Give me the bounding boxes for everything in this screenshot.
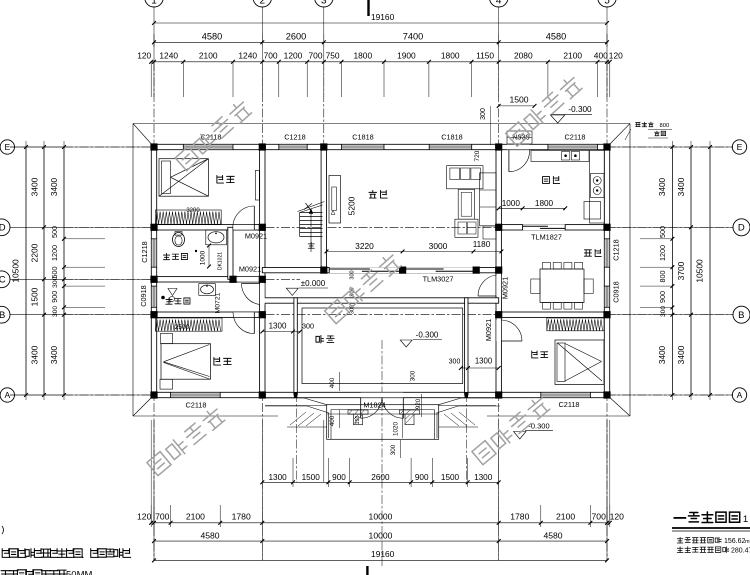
svg-text:1800: 1800 xyxy=(353,51,372,61)
coffee table xyxy=(458,189,475,219)
courtyard north wall xyxy=(262,298,498,303)
eave corner diagonal TR xyxy=(607,124,630,148)
eave corner diagonal BL xyxy=(133,395,154,416)
svg-text:1300: 1300 xyxy=(268,473,287,482)
side table xyxy=(483,226,496,239)
svg-text:400: 400 xyxy=(329,415,336,426)
svg-text:800: 800 xyxy=(660,123,670,129)
svg-text:2200: 2200 xyxy=(30,243,40,262)
bottom extension lines xyxy=(153,420,155,560)
svg-text:3400: 3400 xyxy=(676,345,686,364)
axis bubble D right xyxy=(733,219,750,236)
svg-text:1300: 1300 xyxy=(474,473,493,482)
svg-text:C1218: C1218 xyxy=(140,241,149,263)
door M0921 dining xyxy=(496,275,501,296)
svg-text:±0.000: ±0.000 xyxy=(301,279,326,288)
eave corner diagonal BR xyxy=(607,395,630,416)
stair up arrow xyxy=(310,210,312,252)
svg-text:2100: 2100 xyxy=(563,51,582,61)
svg-text:B: B xyxy=(738,310,744,321)
dim 1300 300 courtyard TL xyxy=(262,331,300,333)
axis bubble D left xyxy=(0,219,10,236)
svg-text:5200: 5200 xyxy=(347,196,357,215)
svg-text:3000: 3000 xyxy=(429,241,448,251)
bottom dim row 3 xyxy=(154,540,607,542)
left dim chain inner xyxy=(63,147,65,395)
svg-text:3400: 3400 xyxy=(658,345,667,364)
door M0921 bedroom3 xyxy=(496,320,501,341)
axis line 2 xyxy=(261,7,263,62)
svg-text:720: 720 xyxy=(474,150,481,161)
door opening wall C baths xyxy=(238,277,259,282)
svg-text:D: D xyxy=(738,223,745,234)
dining table xyxy=(540,269,584,303)
axis line B xyxy=(10,314,64,316)
note line 3 (cut) xyxy=(1,571,10,575)
svg-text:156.62: 156.62 xyxy=(724,538,746,545)
courtyard west axis xyxy=(296,300,298,482)
svg-text:M0921: M0921 xyxy=(484,319,493,341)
bath1 basin xyxy=(206,230,227,245)
watermark top-right xyxy=(505,74,582,146)
courtyard west wall xyxy=(294,298,297,395)
svg-text:1500: 1500 xyxy=(302,473,321,482)
svg-text:C1218: C1218 xyxy=(612,239,621,261)
axis line C xyxy=(10,278,64,280)
svg-text:3700: 3700 xyxy=(676,261,686,280)
porch wing wall left xyxy=(265,398,327,405)
axis line 5 xyxy=(606,7,608,62)
svg-text:A: A xyxy=(4,390,10,400)
window C2118 bedroom1 north xyxy=(183,145,233,150)
bath2 shower head xyxy=(169,296,174,301)
svg-text:2600: 2600 xyxy=(286,31,306,41)
svg-text:-0.300: -0.300 xyxy=(568,105,592,114)
tv cabinet living xyxy=(329,176,341,224)
svg-text:120: 120 xyxy=(137,512,152,522)
svg-text:3400: 3400 xyxy=(50,177,59,196)
svg-text:300: 300 xyxy=(449,359,461,366)
door M0921 bath2 xyxy=(260,284,265,305)
bath2 floor drain xyxy=(168,289,177,296)
porch eave line right xyxy=(438,405,496,407)
sheet center mark bottom xyxy=(366,566,368,575)
svg-text:C0918: C0918 xyxy=(139,285,148,307)
svg-text:E: E xyxy=(737,142,743,152)
svg-text:1500: 1500 xyxy=(509,95,528,105)
svg-text:700: 700 xyxy=(264,51,278,61)
entrance pier left xyxy=(348,410,368,414)
svg-text:C1818: C1818 xyxy=(352,133,374,142)
wardrobe bedroom1 xyxy=(156,210,222,224)
room label bath1 xyxy=(163,253,169,259)
svg-text:1300: 1300 xyxy=(269,322,287,331)
dim 3220 3000 1180 xyxy=(327,250,502,252)
bath1 drain dot xyxy=(195,250,197,252)
svg-text:700: 700 xyxy=(309,51,323,61)
svg-text:2080: 2080 xyxy=(514,51,533,61)
svg-text:1000: 1000 xyxy=(200,250,207,265)
sheet center mark top xyxy=(367,0,369,16)
svg-text:920: 920 xyxy=(415,398,422,409)
eave outline right xyxy=(629,124,631,417)
svg-text:A: A xyxy=(737,390,743,400)
svg-text:3400: 3400 xyxy=(676,177,686,196)
bath1 toilet xyxy=(173,233,185,247)
svg-text:DK1021: DK1021 xyxy=(218,252,224,270)
eave outline bottom-right xyxy=(487,415,630,417)
svg-text:-0.300: -0.300 xyxy=(416,331,439,340)
eave outline left xyxy=(132,124,134,417)
room label living xyxy=(369,190,377,198)
title area line 1 xyxy=(677,537,683,543)
axis bubble 2 xyxy=(253,0,272,7)
wall south (axis A) xyxy=(151,392,609,397)
porch wing wall right xyxy=(439,398,500,405)
svg-text:10500: 10500 xyxy=(695,259,705,283)
bath partition wall xyxy=(228,227,233,279)
sliding door opening 3220 xyxy=(329,267,402,273)
svg-text:1300: 1300 xyxy=(475,357,493,366)
door M1824 courtyard entrance xyxy=(361,393,404,398)
svg-text:C1218: C1218 xyxy=(284,133,306,142)
axis line A xyxy=(10,394,64,396)
svg-text:4580: 4580 xyxy=(200,530,219,540)
svg-text:120: 120 xyxy=(610,512,625,522)
svg-text:3220: 3220 xyxy=(355,241,374,251)
svg-text:M0921: M0921 xyxy=(245,232,267,241)
svg-text:B: B xyxy=(0,310,5,321)
svg-text:E: E xyxy=(4,142,10,152)
svg-text:500: 500 xyxy=(658,226,667,238)
kitchen door step xyxy=(507,131,532,144)
room label kitchen xyxy=(543,177,550,184)
right dim chain inner xyxy=(671,147,673,395)
wall west (axis 1) xyxy=(151,144,156,397)
svg-text:400: 400 xyxy=(594,51,608,61)
svg-text:900: 900 xyxy=(658,291,667,303)
window C0918 east xyxy=(605,286,610,307)
dim 1000 bath xyxy=(208,246,210,267)
fridge xyxy=(584,202,601,220)
svg-text:4: 4 xyxy=(496,0,502,7)
svg-text:1150: 1150 xyxy=(476,51,494,61)
svg-text:19160: 19160 xyxy=(371,549,395,559)
dim 300 1300 courtyard BR xyxy=(461,367,499,369)
svg-text:M0721: M0721 xyxy=(215,292,222,313)
bed bedroom3 xyxy=(555,340,604,385)
bottom dim row total xyxy=(154,559,607,561)
dim 1500 top right xyxy=(499,105,535,107)
svg-text:1000: 1000 xyxy=(502,199,521,208)
svg-text:1: 1 xyxy=(743,514,748,525)
wall C left wing xyxy=(154,277,262,282)
svg-text:750: 750 xyxy=(326,51,340,61)
svg-text:1800: 1800 xyxy=(441,51,460,61)
tv shelf bedroom1 xyxy=(255,171,259,201)
wall axis 3 stair xyxy=(321,147,326,273)
room label bedroom3 xyxy=(532,351,538,358)
svg-text:2100: 2100 xyxy=(186,512,205,522)
axis bubble 4 xyxy=(489,0,508,7)
window C2118 kitchen north xyxy=(548,145,598,150)
svg-text:1200: 1200 xyxy=(658,245,667,261)
sofa right chaise xyxy=(480,173,497,226)
sliding door TLM1827 xyxy=(523,224,566,230)
svg-text:400: 400 xyxy=(329,377,336,388)
svg-text:3400: 3400 xyxy=(30,177,40,196)
svg-text:700: 700 xyxy=(155,512,170,522)
svg-text:TLM1827: TLM1827 xyxy=(531,233,562,242)
svg-text:3400: 3400 xyxy=(658,177,667,196)
svg-text:1240: 1240 xyxy=(238,51,257,61)
svg-text:19160: 19160 xyxy=(371,12,395,22)
svg-text:M0921: M0921 xyxy=(501,277,510,299)
note sanshui 800 xyxy=(636,122,641,126)
room label courtyard xyxy=(316,335,324,343)
window C1218 east xyxy=(605,239,610,267)
axis line 4 xyxy=(498,7,500,62)
svg-text:C2118: C2118 xyxy=(559,400,580,409)
wardrobe bedroom3 xyxy=(547,318,604,331)
bottom dim row 2 xyxy=(151,522,610,524)
svg-text:3400: 3400 xyxy=(50,345,59,364)
svg-text:2600: 2600 xyxy=(371,473,390,482)
svg-text:300: 300 xyxy=(480,108,487,120)
left dim chain outer 10500 xyxy=(25,147,27,395)
svg-text:1200: 1200 xyxy=(284,51,303,61)
svg-text:4580: 4580 xyxy=(202,31,222,41)
svg-text:M1824: M1824 xyxy=(363,401,385,410)
watermark bottom-right xyxy=(472,395,551,465)
axis bubble B left xyxy=(0,306,10,323)
entrance axis xyxy=(381,340,383,566)
svg-text:700: 700 xyxy=(592,512,607,522)
svg-text:2100: 2100 xyxy=(199,51,218,61)
bed bedroom1 xyxy=(159,159,208,197)
svg-text:10000: 10000 xyxy=(369,530,393,540)
watermark center xyxy=(324,252,401,324)
window C1218 west xyxy=(152,239,157,267)
axis line 1 xyxy=(153,7,155,62)
wall living south xyxy=(262,268,498,273)
courtyard wall corner posts xyxy=(294,392,297,398)
door M0921 bedroom1 xyxy=(233,225,254,230)
svg-text:300: 300 xyxy=(52,306,59,317)
svg-text:D: D xyxy=(0,223,6,234)
dim 1000 1800 kitchen xyxy=(499,207,566,209)
svg-text:3400: 3400 xyxy=(30,345,40,364)
svg-text:4580: 4580 xyxy=(546,31,566,41)
room label dining xyxy=(584,250,591,256)
courtyard east axis xyxy=(465,300,467,482)
window C2118 bedroom2 south xyxy=(171,393,221,398)
axis bubble E left xyxy=(0,140,14,154)
svg-text:1020: 1020 xyxy=(393,422,400,437)
wall D right wing xyxy=(499,225,607,230)
sofa top xyxy=(447,166,483,189)
room label bath2 xyxy=(166,298,172,304)
stair label up xyxy=(308,242,314,248)
svg-text:C1818: C1818 xyxy=(441,133,463,142)
wall axis 4 interior xyxy=(496,147,501,395)
svg-text:900: 900 xyxy=(50,291,59,303)
kitchen counter north xyxy=(531,150,589,161)
svg-text:TLM3027: TLM3027 xyxy=(423,275,454,284)
top dimension row total 19160 xyxy=(154,22,607,24)
svg-text:4580: 4580 xyxy=(543,530,562,540)
window C1218 stair north xyxy=(279,145,307,150)
svg-text:C2118: C2118 xyxy=(565,133,586,142)
wall east (axis 5) xyxy=(604,144,609,397)
svg-text:1240: 1240 xyxy=(159,51,178,61)
axis bubble B right xyxy=(733,306,750,323)
svg-text:280.47: 280.47 xyxy=(731,548,750,555)
wall B left wing xyxy=(154,312,262,317)
svg-text:C: C xyxy=(0,275,6,286)
structural columns xyxy=(150,143,157,150)
courtyard inner edge xyxy=(302,308,463,384)
window C1818 living north 1 xyxy=(342,145,385,150)
axis line D xyxy=(10,226,64,228)
svg-text:10000: 10000 xyxy=(369,512,393,522)
eave corner diagonal TL xyxy=(133,124,154,148)
eave outline top xyxy=(133,123,630,125)
top dimension row spans xyxy=(154,41,607,43)
svg-text:1200: 1200 xyxy=(50,245,59,261)
svg-text:500: 500 xyxy=(50,226,59,238)
title area line 2 xyxy=(677,547,683,553)
wardrobe bedroom2 xyxy=(156,318,223,331)
room label bedroom1 xyxy=(217,175,224,183)
wall B right wing xyxy=(499,312,607,317)
svg-text:900: 900 xyxy=(332,473,346,482)
kitchen sink xyxy=(562,152,570,161)
wall north (axis E) xyxy=(151,144,609,149)
axis bubble 1 xyxy=(145,0,164,7)
eave outline bottom-left xyxy=(133,415,278,417)
axis bubble 5 xyxy=(598,0,617,7)
svg-text:800: 800 xyxy=(658,271,667,283)
svg-text:500: 500 xyxy=(50,267,59,279)
svg-text:1780: 1780 xyxy=(510,512,529,522)
right extension lines xyxy=(610,146,733,148)
bed bedroom2 xyxy=(161,344,211,380)
svg-text:1780: 1780 xyxy=(232,512,251,522)
wall axis 2 interior xyxy=(260,147,265,395)
stair treads xyxy=(300,212,323,214)
watermark bottom-left xyxy=(147,406,226,476)
svg-text:1: 1 xyxy=(151,0,157,7)
entrance step platform xyxy=(327,405,439,440)
svg-text:1900: 1900 xyxy=(397,51,416,61)
right dim chain mid xyxy=(690,147,692,395)
svg-text:1500: 1500 xyxy=(30,287,40,306)
note fragment paren xyxy=(2,526,4,534)
svg-text:2: 2 xyxy=(260,0,266,7)
axis line 3 xyxy=(323,7,325,62)
svg-text:300: 300 xyxy=(390,444,397,455)
bottom courtyard dim row xyxy=(262,481,498,483)
sofa bottom xyxy=(455,219,478,237)
stair break line xyxy=(298,202,325,212)
svg-text:1180: 1180 xyxy=(473,240,491,249)
axis bubble C left xyxy=(0,271,10,288)
door M0921 bedroom2 xyxy=(233,312,254,317)
stove xyxy=(591,174,605,198)
axis bubble 3 xyxy=(315,0,334,7)
door N930 kitchen north xyxy=(507,145,529,150)
kitchen counter east xyxy=(590,150,605,223)
svg-text:3200: 3200 xyxy=(186,208,200,214)
svg-text:5: 5 xyxy=(604,0,610,7)
watermark top-left xyxy=(175,99,252,171)
left extension lines xyxy=(10,146,151,148)
top dimension row detail xyxy=(151,61,610,63)
svg-text:7400: 7400 xyxy=(403,31,423,41)
axis line E xyxy=(10,146,64,148)
bath2 basin xyxy=(199,284,216,296)
svg-text:1500: 1500 xyxy=(441,473,460,482)
svg-text:120: 120 xyxy=(137,51,151,61)
svg-text:900: 900 xyxy=(415,473,429,482)
svg-text:1800: 1800 xyxy=(535,199,554,208)
axis bubble E right xyxy=(732,140,746,154)
wall D left wing xyxy=(154,225,262,230)
svg-text:C0918: C0918 xyxy=(612,281,621,303)
axis bubble A left xyxy=(0,388,14,402)
svg-text:2100: 2100 xyxy=(556,512,575,522)
room label bedroom2 xyxy=(214,357,221,365)
svg-text:300: 300 xyxy=(350,270,356,279)
note line 2 xyxy=(2,549,10,558)
svg-text:120: 120 xyxy=(609,51,623,61)
svg-text:300: 300 xyxy=(410,370,417,381)
svg-text:2500: 2500 xyxy=(175,324,190,331)
svg-text:m²: m² xyxy=(745,539,750,545)
sliding door TLM3027 xyxy=(406,267,474,273)
title underline xyxy=(672,527,750,529)
svg-text:3: 3 xyxy=(321,0,327,7)
svg-text:300: 300 xyxy=(302,322,314,331)
window C0918 west xyxy=(152,286,157,307)
svg-text:150: 150 xyxy=(355,416,361,425)
entrance pier right xyxy=(400,410,420,414)
svg-text:50MM: 50MM xyxy=(66,570,92,575)
svg-text:300: 300 xyxy=(52,276,59,287)
courtyard east wall xyxy=(465,298,468,395)
right dim chain outer 10500 xyxy=(709,147,711,395)
svg-text:M0921: M0921 xyxy=(239,265,261,274)
window C1818 living north 2 xyxy=(429,145,472,150)
window C2118 bedroom3 south xyxy=(541,393,591,398)
porch eave line left xyxy=(265,405,327,407)
svg-text:C2118: C2118 xyxy=(186,401,207,410)
left dim chain mid xyxy=(43,147,45,395)
axis bubble A right xyxy=(732,388,746,402)
title first floor plan xyxy=(674,517,687,519)
